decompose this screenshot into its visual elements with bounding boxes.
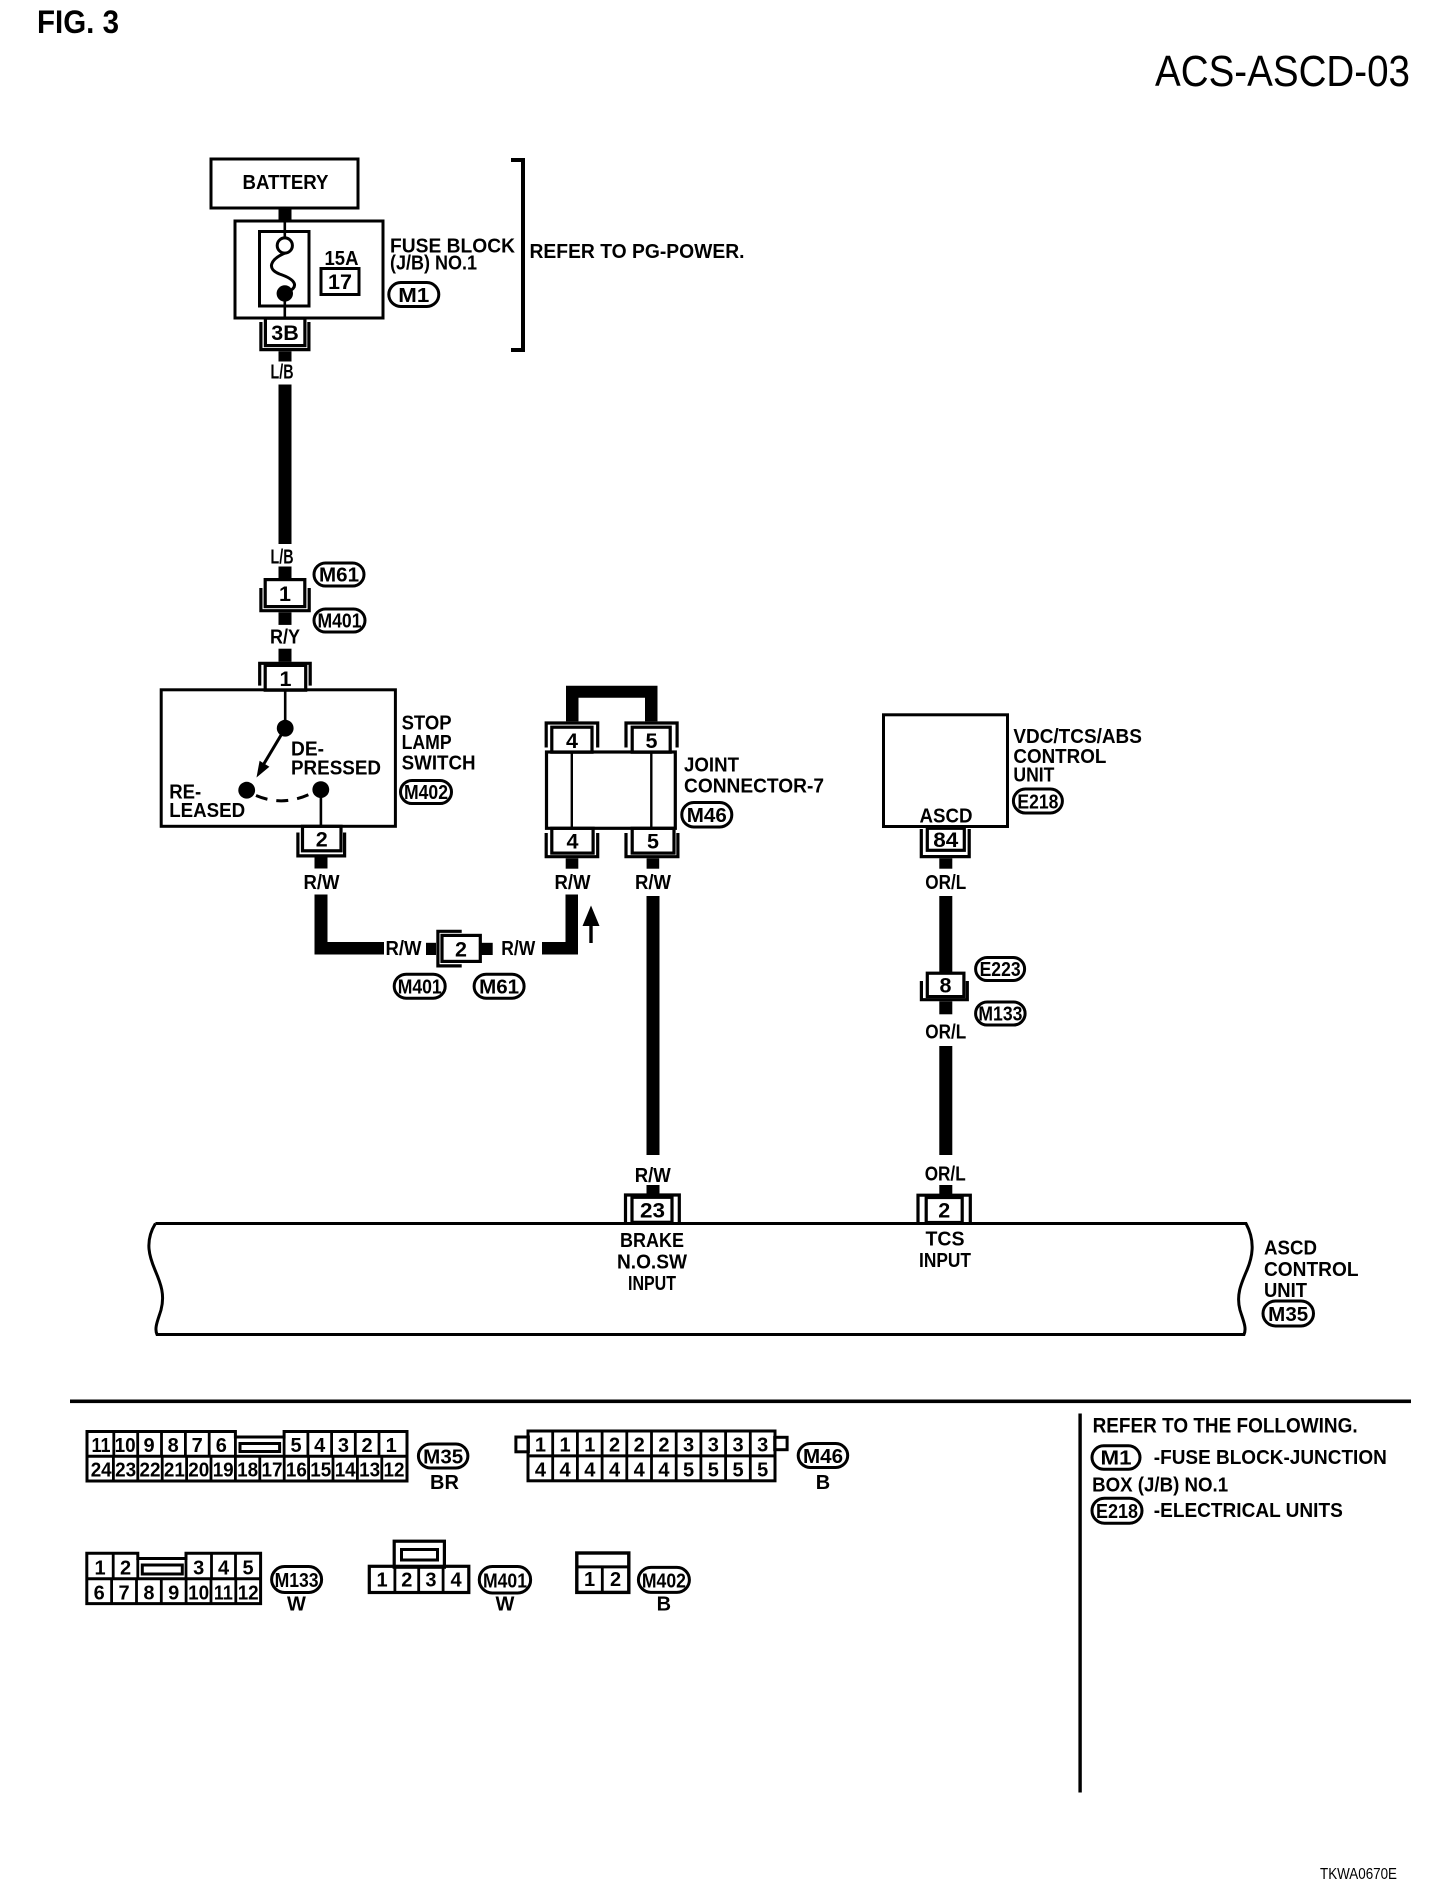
svg-text:M61: M61	[479, 977, 519, 999]
connector M133 oval (face)	[272, 1567, 322, 1593]
svg-text:M401: M401	[318, 611, 362, 633]
svg-text:15A: 15A	[325, 248, 359, 270]
svg-text:N.O.SW: N.O.SW	[617, 1252, 687, 1274]
connector M133 oval	[976, 1002, 1026, 1026]
connector 3B	[265, 318, 305, 345]
fuse S element	[271, 253, 294, 292]
svg-text:9: 9	[168, 1583, 179, 1605]
svg-text:ASCD: ASCD	[920, 806, 973, 828]
svg-text:6: 6	[94, 1583, 105, 1605]
svg-text:23: 23	[640, 1199, 665, 1223]
svg-text:E223: E223	[980, 959, 1021, 981]
svg-text:M401: M401	[398, 977, 442, 999]
svg-text:4: 4	[658, 1459, 670, 1481]
wire stub above pin 2	[939, 1185, 952, 1195]
svg-text:2: 2	[938, 1199, 950, 1223]
connector M402 oval	[401, 781, 452, 805]
svg-text:12: 12	[384, 1460, 405, 1482]
svg-text:5: 5	[732, 1459, 743, 1481]
svg-text:3B: 3B	[271, 321, 298, 345]
svg-text:M401: M401	[483, 1571, 527, 1593]
svg-text:4: 4	[559, 1459, 571, 1481]
connector M35 oval	[1263, 1301, 1314, 1326]
svg-text:M402: M402	[404, 782, 448, 804]
svg-text:R/W: R/W	[555, 872, 591, 894]
svg-text:TCS: TCS	[926, 1229, 965, 1251]
bracket	[511, 160, 523, 350]
svg-text:LAMP: LAMP	[402, 732, 452, 754]
connector M35 oval (face)	[418, 1444, 468, 1469]
connector face M46 outline	[528, 1431, 775, 1481]
vertical divider	[1078, 1414, 1081, 1793]
svg-text:24: 24	[91, 1460, 113, 1482]
svg-text:1: 1	[377, 1570, 388, 1592]
stop lamp switch pin 1 connector	[260, 663, 311, 685]
joint connector bottom pin 5	[632, 828, 674, 853]
svg-text:2: 2	[455, 938, 467, 962]
svg-text:-FUSE BLOCK-JUNCTION: -FUSE BLOCK-JUNCTION	[1154, 1447, 1387, 1469]
M35 pins row 1: 11 10 9 8 7 6 5 4 3 2 1	[92, 1435, 397, 1457]
connector M401 oval	[394, 974, 445, 998]
svg-text:21: 21	[164, 1460, 185, 1482]
switch arm arrowhead	[257, 761, 270, 778]
separator line	[70, 1400, 1411, 1404]
fuse terminal dot	[277, 285, 293, 301]
svg-text:M46: M46	[803, 1446, 843, 1468]
svg-text:R/W: R/W	[386, 938, 422, 960]
joint connector top U wire	[566, 686, 658, 722]
junction M61/M401 pin 1	[265, 580, 305, 607]
svg-text:E218: E218	[1096, 1501, 1138, 1523]
battery	[211, 159, 358, 208]
wire up to joint connector pin 4	[566, 895, 579, 955]
connector E218 oval	[1013, 789, 1062, 814]
svg-text:OR/L: OR/L	[925, 1022, 966, 1044]
svg-text:B: B	[816, 1472, 830, 1494]
svg-text:INPUT: INPUT	[628, 1273, 676, 1295]
svg-text:TKWA0670E: TKWA0670E	[1320, 1866, 1397, 1883]
svg-text:R/W: R/W	[635, 1165, 671, 1187]
wire down to junction 8	[939, 896, 952, 973]
wire down from pin 2	[315, 895, 328, 955]
wire stub	[279, 612, 292, 625]
svg-text:4: 4	[218, 1558, 230, 1580]
svg-text:R/W: R/W	[304, 872, 340, 894]
ASCD unit pin 23 connector	[626, 1195, 680, 1222]
svg-text:4: 4	[450, 1570, 462, 1592]
svg-text:BR: BR	[430, 1472, 459, 1494]
M35 keyway slot	[240, 1444, 280, 1452]
M133 keyway slot	[142, 1565, 182, 1574]
svg-text:M61: M61	[319, 565, 359, 587]
switch arm	[264, 728, 286, 764]
connector face M35 outline	[87, 1432, 407, 1482]
svg-text:1: 1	[559, 1435, 570, 1457]
svg-text:1: 1	[280, 667, 292, 691]
svg-text:10: 10	[115, 1435, 136, 1457]
svg-text:W: W	[496, 1594, 515, 1616]
svg-text:1: 1	[386, 1435, 397, 1457]
svg-text:11: 11	[92, 1435, 111, 1457]
svg-text:4: 4	[634, 1459, 646, 1481]
svg-text:OR/L: OR/L	[925, 1164, 966, 1186]
VDC unit pin 84 connector	[927, 828, 964, 850]
svg-text:8: 8	[168, 1435, 179, 1457]
fuse block (J/B) NO.1 box	[235, 221, 383, 318]
svg-text:3: 3	[683, 1435, 694, 1457]
svg-text:L/B: L/B	[271, 547, 294, 569]
svg-text:84: 84	[933, 828, 958, 852]
wire stub below junction 8	[939, 1001, 952, 1014]
connector M46 oval (face)	[798, 1444, 848, 1469]
svg-text:5: 5	[242, 1558, 253, 1580]
svg-text:REFER TO THE FOLLOWING.: REFER TO THE FOLLOWING.	[1093, 1415, 1358, 1438]
svg-text:VDC/TCS/ABS: VDC/TCS/ABS	[1013, 726, 1142, 748]
svg-text:10: 10	[188, 1583, 209, 1605]
connector M401 oval (face)	[479, 1567, 530, 1594]
M46 pins row 2: 4 4 4 4 4 4 5 5 5 5	[535, 1459, 768, 1481]
M46 left tab	[516, 1437, 529, 1452]
stop lamp switch pin 2 connector	[303, 826, 342, 851]
svg-text:4: 4	[535, 1459, 547, 1481]
svg-text:17: 17	[328, 270, 352, 294]
connector M401 oval	[314, 609, 365, 633]
svg-text:UNIT: UNIT	[1013, 765, 1054, 787]
svg-text:OR/L: OR/L	[925, 872, 966, 894]
stop lamp switch box	[161, 690, 395, 827]
VDC/TCS/ABS control unit box	[884, 715, 1008, 827]
svg-text:4: 4	[567, 830, 579, 854]
wire stub right of junction 2	[480, 943, 492, 955]
svg-text:BATTERY: BATTERY	[243, 172, 330, 194]
svg-text:FIG. 3: FIG. 3	[37, 4, 119, 40]
svg-text:R/Y: R/Y	[270, 627, 301, 649]
svg-text:2: 2	[401, 1570, 412, 1592]
svg-text:1: 1	[584, 1435, 595, 1457]
svg-text:3: 3	[193, 1558, 204, 1580]
junction E223/M133 pin 8	[927, 973, 964, 996]
svg-text:SWITCH: SWITCH	[402, 753, 476, 775]
svg-text:UNIT: UNIT	[1264, 1280, 1307, 1302]
M402 pins: 1 2	[584, 1569, 621, 1591]
connector face M133 outline	[87, 1553, 261, 1603]
svg-text:2: 2	[610, 1569, 621, 1591]
svg-text:M1: M1	[398, 285, 429, 307]
M401 pins: 1 2 3 4	[377, 1570, 463, 1592]
direction arrow	[589, 923, 592, 943]
svg-text:3: 3	[757, 1435, 768, 1457]
svg-text:20: 20	[188, 1460, 209, 1482]
svg-text:M46: M46	[687, 805, 727, 827]
connector M61 oval	[474, 974, 524, 998]
svg-text:2: 2	[609, 1435, 620, 1457]
svg-text:REFER TO PG-POWER.: REFER TO PG-POWER.	[530, 241, 745, 263]
joint connector bottom pin 4	[552, 828, 593, 853]
wire stub above pin 23	[647, 1185, 660, 1195]
svg-text:17: 17	[262, 1460, 283, 1482]
wire stub below 3B	[279, 351, 292, 361]
svg-text:2: 2	[658, 1435, 669, 1457]
wire stub left of junction 2	[426, 943, 436, 955]
wire to pivot	[284, 690, 287, 722]
svg-text:5: 5	[290, 1435, 301, 1457]
connector M46 oval	[682, 803, 732, 828]
wire out of fuse	[283, 300, 286, 319]
wire stub below pin 2	[315, 858, 328, 869]
M133 pins row 2: 6 7 8 9 10 11 12	[94, 1583, 259, 1605]
svg-text:L/B: L/B	[271, 362, 294, 384]
svg-text:5: 5	[646, 729, 658, 753]
svg-text:9: 9	[144, 1435, 155, 1457]
svg-text:M35: M35	[423, 1447, 463, 1469]
wire from depressed contact	[320, 797, 323, 826]
joint connector top pin 4	[546, 723, 598, 748]
svg-text:(J/B) NO.1: (J/B) NO.1	[390, 253, 477, 275]
svg-text:2: 2	[362, 1435, 373, 1457]
wire L/B long	[279, 385, 292, 545]
svg-text:5: 5	[647, 830, 659, 854]
svg-text:ACS-ASCD-03: ACS-ASCD-03	[1155, 47, 1410, 96]
svg-text:1: 1	[279, 582, 291, 606]
svg-text:PRESSED: PRESSED	[291, 758, 381, 780]
svg-text:M133: M133	[275, 1570, 319, 1592]
svg-text:6: 6	[216, 1435, 227, 1457]
connector M1 oval (legend)	[1092, 1446, 1140, 1470]
fuse number 17 box	[321, 269, 359, 295]
svg-text:15: 15	[310, 1460, 331, 1482]
svg-text:R/W: R/W	[501, 938, 535, 960]
svg-text:3: 3	[708, 1435, 719, 1457]
svg-text:2: 2	[120, 1558, 131, 1580]
wire battery to fuse block	[279, 207, 292, 222]
svg-text:BOX (J/B) NO.1: BOX (J/B) NO.1	[1092, 1475, 1228, 1497]
wire into fuse	[283, 221, 286, 239]
svg-text:1: 1	[535, 1435, 546, 1457]
svg-text:ASCD: ASCD	[1264, 1238, 1317, 1260]
fuse 15A terminal circle	[277, 238, 292, 253]
svg-text:JOINT: JOINT	[684, 755, 739, 777]
svg-text:4: 4	[566, 729, 578, 753]
joint connector-7 body	[547, 752, 676, 828]
wire stub	[279, 567, 292, 581]
wire horizontal left segment	[315, 942, 385, 955]
svg-text:1: 1	[94, 1558, 105, 1580]
connector M402 oval (face)	[638, 1567, 689, 1592]
switch pivot dot	[277, 720, 294, 737]
svg-text:1: 1	[584, 1569, 595, 1591]
connector E218 oval (legend)	[1092, 1498, 1142, 1523]
wire down to pin 2	[939, 1046, 952, 1155]
svg-text:3: 3	[732, 1435, 743, 1457]
svg-text:B: B	[657, 1594, 671, 1616]
svg-text:3: 3	[425, 1570, 436, 1592]
wire stub	[279, 649, 292, 662]
connector E223 oval	[976, 958, 1025, 982]
svg-text:5: 5	[683, 1459, 694, 1481]
svg-text:CONTROL: CONTROL	[1264, 1259, 1359, 1281]
ASCD control unit band	[149, 1224, 1252, 1335]
released contact dot	[238, 782, 255, 799]
wire horizontal right segment	[542, 942, 578, 955]
svg-text:M1: M1	[1101, 1448, 1132, 1470]
wire stub below pin 84	[939, 858, 952, 868]
joint connector top pin 5	[626, 723, 677, 748]
svg-text:4: 4	[314, 1435, 326, 1457]
M133 pins row 1: 1 2 3 4 5	[94, 1558, 253, 1580]
svg-text:14: 14	[335, 1460, 357, 1482]
dashed arc	[256, 793, 313, 801]
svg-text:4: 4	[584, 1459, 596, 1481]
svg-text:-ELECTRICAL UNITS: -ELECTRICAL UNITS	[1154, 1500, 1343, 1522]
svg-text:BRAKE: BRAKE	[620, 1230, 684, 1252]
ASCD unit pin 2 connector	[918, 1195, 970, 1222]
svg-text:E218: E218	[1017, 792, 1058, 814]
svg-text:23: 23	[115, 1460, 136, 1482]
svg-text:8: 8	[143, 1583, 154, 1605]
svg-text:19: 19	[213, 1460, 234, 1482]
svg-text:7: 7	[118, 1583, 129, 1605]
wire stub below pin 5	[647, 858, 660, 868]
svg-text:INPUT: INPUT	[919, 1250, 971, 1272]
svg-text:R/W: R/W	[635, 872, 671, 894]
svg-text:4: 4	[609, 1459, 621, 1481]
svg-text:2: 2	[316, 828, 328, 852]
wire pin 5 to pin 23	[647, 896, 660, 1155]
svg-text:8: 8	[940, 974, 952, 998]
M35 pins row 2: 24..12	[91, 1460, 405, 1482]
svg-text:CONNECTOR-7: CONNECTOR-7	[684, 776, 824, 798]
svg-text:11: 11	[214, 1583, 233, 1605]
connector face M402 outline	[577, 1553, 629, 1592]
svg-text:5: 5	[708, 1459, 719, 1481]
svg-text:22: 22	[140, 1460, 161, 1482]
svg-text:18: 18	[237, 1460, 258, 1482]
svg-text:13: 13	[359, 1460, 380, 1482]
svg-text:M402: M402	[642, 1571, 686, 1593]
fuse inner box	[260, 232, 310, 307]
M46 pins row 1: 1 1 1 2 2 2 3 3 3 3	[535, 1435, 768, 1457]
svg-text:16: 16	[286, 1460, 307, 1482]
svg-text:7: 7	[192, 1435, 203, 1457]
svg-text:W: W	[287, 1594, 306, 1616]
connector M61 oval	[314, 563, 364, 587]
svg-text:2: 2	[634, 1435, 645, 1457]
junction M401/M61 pin 2	[442, 935, 480, 961]
connector M1 oval	[389, 283, 439, 308]
svg-text:3: 3	[338, 1435, 349, 1457]
depressed contact dot	[312, 781, 329, 798]
wire stub below pin 4	[566, 858, 579, 868]
svg-text:12: 12	[238, 1583, 259, 1605]
connector face M401 outline	[369, 1541, 469, 1592]
svg-text:5: 5	[757, 1459, 768, 1481]
M46 right tab	[775, 1437, 787, 1449]
svg-text:LEASED: LEASED	[169, 800, 245, 822]
svg-text:M35: M35	[1268, 1304, 1308, 1326]
svg-text:M133: M133	[978, 1004, 1022, 1026]
